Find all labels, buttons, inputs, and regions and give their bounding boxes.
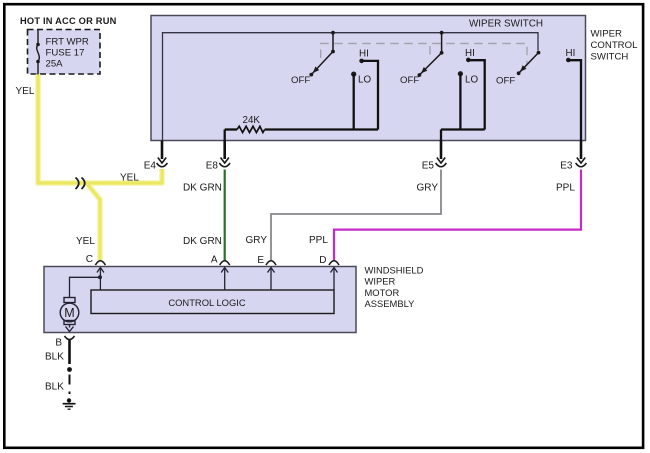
connector E4 xyxy=(161,141,164,160)
node switch1 feed xyxy=(331,31,335,35)
wire PPL: E3 to pin D xyxy=(334,170,581,262)
windshield wiper motor assembly box xyxy=(44,267,356,333)
svg-text:GRY: GRY xyxy=(246,235,268,246)
wire to motor xyxy=(70,277,101,297)
svg-text:BLK: BLK xyxy=(45,352,64,363)
svg-text:PPL: PPL xyxy=(556,183,575,194)
svg-text:E5: E5 xyxy=(422,161,435,172)
svg-text:WINDSHIELD: WINDSHIELD xyxy=(365,264,424,275)
switch arm 1 xyxy=(311,33,333,75)
svg-text:CONTROL LOGIC: CONTROL LOGIC xyxy=(168,297,245,308)
svg-text:HI: HI xyxy=(465,48,475,59)
fuse FRT WPR FUSE 17 25A xyxy=(37,30,40,75)
wire BLK: B to splice xyxy=(68,340,71,364)
svg-text:HOT IN ACC OR RUN: HOT IN ACC OR RUN xyxy=(20,16,117,26)
HI contact 1 xyxy=(359,59,364,64)
dashed mechanical linkage xyxy=(321,44,527,65)
svg-text:CONTROL: CONTROL xyxy=(591,40,639,51)
wire DK GRN: E8 to pin A xyxy=(224,170,226,262)
pin C connector xyxy=(95,261,105,265)
wire GRY: E5 to pin E xyxy=(271,170,441,262)
svg-text:ASSEMBLY: ASSEMBLY xyxy=(365,298,416,309)
svg-text:C: C xyxy=(86,254,93,265)
svg-text:LO: LO xyxy=(465,75,478,86)
svg-text:WIPER SWITCH: WIPER SWITCH xyxy=(469,19,543,30)
wiper switch box xyxy=(151,16,586,141)
LO contact 2 xyxy=(458,71,463,76)
switch arm 3 xyxy=(519,53,539,74)
splice node xyxy=(67,367,72,372)
wire: LO bus 2 xyxy=(441,128,485,130)
resistor 24K on LO bus xyxy=(225,128,237,130)
pin E connector xyxy=(266,261,276,265)
svg-text:DK GRN: DK GRN xyxy=(183,183,222,194)
pin D connector xyxy=(329,261,339,265)
svg-text:E4: E4 xyxy=(144,161,157,172)
wire: E5 drop inside box xyxy=(440,130,442,141)
LO contact 1 xyxy=(351,72,356,77)
pin A connector xyxy=(220,261,230,265)
svg-text:FRT WPR: FRT WPR xyxy=(46,37,89,48)
svg-text:WIPER: WIPER xyxy=(591,29,623,40)
motor M xyxy=(60,298,79,332)
svg-text:A: A xyxy=(211,255,218,266)
svg-text:OFF: OFF xyxy=(400,75,419,86)
wire: feed bus inside wiper switch xyxy=(163,33,539,141)
node switch2 feed xyxy=(440,31,444,35)
svg-text:WIPER: WIPER xyxy=(365,276,396,287)
connector E5 xyxy=(440,141,443,160)
inline splice symbol on YEL wire xyxy=(76,178,85,190)
svg-text:OFF: OFF xyxy=(291,75,310,86)
HI contact 3 xyxy=(566,58,571,63)
svg-text:DK GRN: DK GRN xyxy=(183,236,222,247)
svg-text:SWITCH: SWITCH xyxy=(591,51,629,62)
svg-text:24K: 24K xyxy=(243,115,261,126)
svg-text:PPL: PPL xyxy=(309,235,328,246)
svg-text:BLK: BLK xyxy=(45,382,64,393)
node: motor tap on pin C xyxy=(98,275,102,279)
svg-text:MOTOR: MOTOR xyxy=(365,287,400,298)
svg-text:OFF: OFF xyxy=(496,76,515,87)
fuse box (dashed) xyxy=(28,30,101,75)
svg-text:25A: 25A xyxy=(46,59,64,70)
svg-text:HI: HI xyxy=(566,48,576,59)
svg-text:YEL: YEL xyxy=(120,173,139,184)
wire YEL: fuse to E4 and splice to pin C xyxy=(38,75,162,261)
svg-text:E3: E3 xyxy=(560,161,573,172)
svg-text:E8: E8 xyxy=(206,161,219,172)
svg-text:HI: HI xyxy=(359,49,369,60)
connector E8 xyxy=(223,141,226,160)
HI contact 2 xyxy=(466,58,471,63)
svg-text:LO: LO xyxy=(358,75,371,86)
svg-text:D: D xyxy=(319,255,326,266)
svg-text:M: M xyxy=(64,306,74,320)
svg-text:E: E xyxy=(257,255,264,266)
connector E3 xyxy=(580,141,583,160)
svg-text:FUSE 17: FUSE 17 xyxy=(46,48,85,59)
control logic box xyxy=(91,290,334,314)
switch arm 2 xyxy=(419,33,441,75)
svg-text:B: B xyxy=(55,338,62,349)
svg-text:GRY: GRY xyxy=(417,183,439,194)
wire BLK: splice to ground (broken) xyxy=(69,375,71,385)
pin B connector xyxy=(65,336,75,340)
wire: E8 drop inside box xyxy=(224,130,226,141)
ground xyxy=(67,398,71,402)
svg-text:YEL: YEL xyxy=(76,236,95,247)
svg-text:YEL: YEL xyxy=(16,86,35,97)
